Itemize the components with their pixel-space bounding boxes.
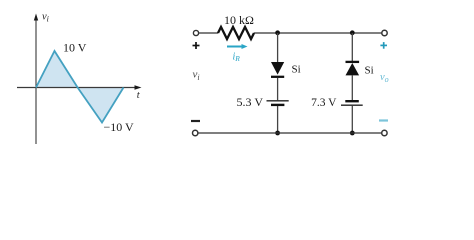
minus sign input (black) [191, 120, 200, 122]
wire node B to diode D2 [351, 33, 353, 62]
bottom wire [198, 132, 382, 134]
node C junction dot (bottom, branch 1) [275, 131, 280, 136]
terminal bottom-right [382, 130, 387, 135]
wire D2 to battery E2 [351, 75, 353, 100]
node A junction dot (top, branch 1) [275, 30, 280, 35]
wire node A to diode D1 [277, 33, 279, 62]
label t (time axis) [137, 90, 141, 101]
waveform vi triangle fill [36, 51, 124, 123]
wire E1 to bottom node [277, 106, 279, 133]
axis t (horizontal) [17, 85, 142, 90]
waveform vi stroke [36, 51, 124, 123]
diode D2 (Si, cathode up) [346, 62, 360, 76]
terminal top-left [193, 30, 198, 35]
label 7.3 V [311, 97, 337, 109]
resistor R 10 kOhm [218, 27, 254, 39]
battery E2 7.3 V (plus down) [341, 101, 363, 105]
svg-text:vi: vi [193, 69, 200, 83]
label iR [233, 52, 241, 64]
label 10 V [63, 41, 87, 55]
svg-text:Si: Si [292, 64, 301, 76]
plus sign input (black) [193, 42, 200, 49]
label vi (input) [193, 69, 200, 83]
wire E2 to bottom node [351, 106, 353, 133]
svg-text:vo: vo [380, 72, 389, 84]
wire resistor to top-right terminal [254, 32, 382, 34]
wire top-left to resistor [199, 32, 218, 34]
svg-text:vi: vi [42, 12, 49, 24]
label Si (D1) [292, 64, 301, 76]
svg-text:10 V: 10 V [63, 41, 87, 55]
diode D1 (Si, anode up) [271, 62, 284, 77]
node D junction dot (bottom, branch 2) [350, 131, 355, 136]
terminal bottom-left [193, 130, 198, 135]
label Si (D2) [365, 65, 374, 77]
axis vi (vertical) [34, 14, 38, 145]
label 5.3 V [237, 95, 264, 109]
label -10 V [104, 120, 135, 134]
svg-text:10 kΩ: 10 kΩ [224, 13, 254, 27]
node B junction dot (top, branch 2) [350, 30, 355, 35]
current arrow iR [227, 44, 248, 49]
plus sign output (blue) [380, 42, 387, 49]
label vi (graph axis) [42, 12, 49, 24]
battery E1 5.3 V (plus up) [267, 101, 289, 105]
svg-text:Si: Si [365, 65, 374, 77]
terminal top-right [382, 30, 387, 35]
svg-text:iR: iR [233, 52, 241, 64]
svg-text:−10 V: −10 V [104, 120, 135, 134]
minus sign output (blue) [379, 119, 388, 121]
svg-text:5.3 V: 5.3 V [237, 95, 264, 109]
label 10 kOhm [224, 13, 254, 27]
wire D1 to battery E1 [277, 78, 279, 100]
label vo (output) [380, 72, 389, 84]
svg-text:7.3 V: 7.3 V [311, 97, 337, 109]
svg-text:t: t [137, 90, 141, 101]
